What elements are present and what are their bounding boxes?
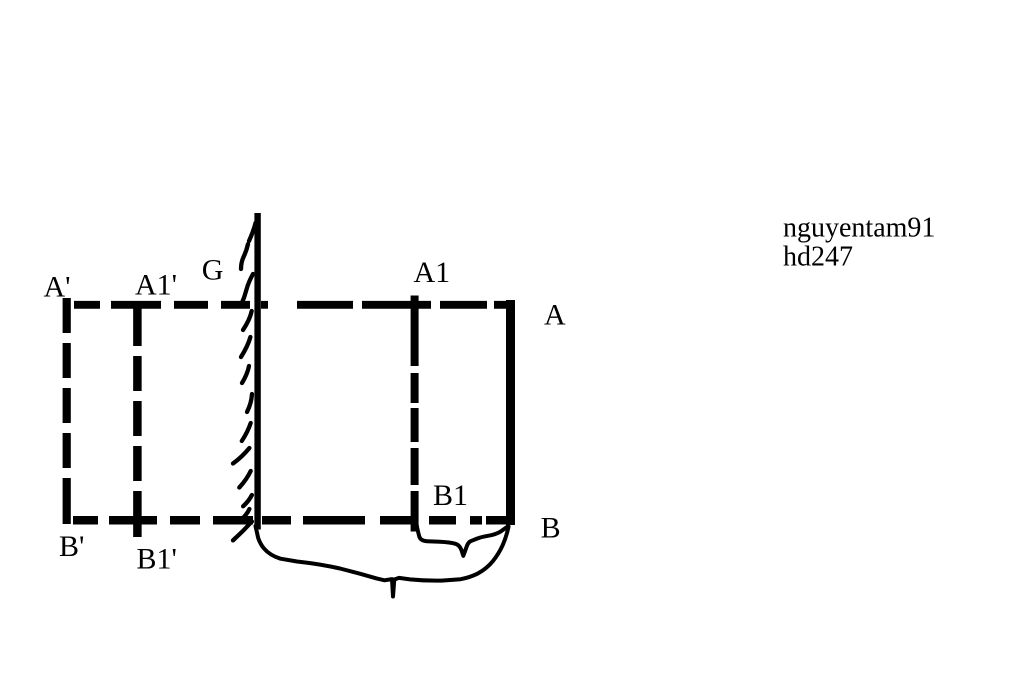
svg-text:hd247: hd247 — [783, 242, 853, 273]
wire: right vertical solid line A to B — [506, 300, 515, 525]
label G — [202, 253, 224, 286]
big curly brace under bottom line (G to B) — [256, 526, 509, 597]
label B1' — [137, 543, 177, 576]
wire: top horizontal dashed line A' to A — [74, 301, 515, 309]
mirror G vertical line — [254, 213, 260, 530]
svg-text:A': A' — [44, 271, 71, 304]
mirror hatching strokes — [233, 223, 256, 540]
label B — [541, 511, 561, 544]
small curly squiggle under B1 to B — [417, 526, 509, 556]
wire: vertical dashed line A1 to B1 — [411, 296, 419, 532]
svg-text:A: A — [544, 299, 566, 332]
svg-text:A1': A1' — [135, 269, 177, 302]
svg-text:B: B — [541, 511, 561, 544]
label B' — [59, 530, 84, 563]
wire: vertical dashed line A1' to B1' — [133, 302, 142, 537]
svg-text:B': B' — [59, 530, 84, 563]
wire: bottom horizontal dashed line B' to B — [73, 516, 515, 525]
label A1 — [414, 256, 451, 289]
svg-text:B1': B1' — [137, 543, 177, 576]
watermark text hd247 — [783, 242, 853, 273]
label A — [544, 299, 566, 332]
svg-text:A1: A1 — [414, 256, 451, 289]
wire: left vertical dashed line A' to B' — [63, 298, 71, 524]
label A1' — [135, 269, 177, 302]
svg-text:B1: B1 — [433, 479, 468, 512]
watermark text nguyentam91 — [783, 213, 935, 244]
svg-text:G: G — [202, 253, 224, 286]
label B1 — [433, 479, 468, 512]
label A' — [44, 271, 71, 304]
svg-text:nguyentam91: nguyentam91 — [783, 213, 935, 244]
